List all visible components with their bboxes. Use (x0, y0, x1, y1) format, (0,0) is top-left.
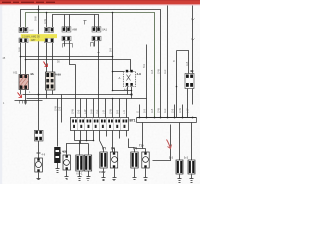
scan grain overlay (2, 5, 200, 184)
wire N1 (113, 90, 132, 92)
tick marks V193 (192, 19, 195, 41)
relay A comp (119, 70, 142, 92)
wire pair2 merge (65, 41, 76, 99)
wire comp right bottom (188, 89, 193, 118)
wire drop to pair3 left (94, 15, 96, 28)
wire pair1 left down (20, 43, 22, 57)
resistor G1 (54, 147, 67, 163)
connector group M A87 (45, 27, 54, 42)
connector bracket below comp1 (20, 101, 27, 104)
wire pair1 right down (25, 43, 27, 60)
ground G4 (87, 177, 91, 181)
ground G10 (190, 179, 194, 183)
wire C inner top (53, 15, 99, 28)
connector pair2 (62, 27, 77, 41)
connector bracket below pair3 (91, 43, 94, 47)
wire H1 bus top (21, 10, 161, 118)
title bar (0, 0, 200, 5)
wire enclosure small (129, 139, 135, 148)
wire right loop (177, 51, 189, 118)
connector strip B71 (71, 118, 136, 131)
connector G5 (100, 152, 107, 168)
wire M2 middle (26, 60, 131, 72)
wires below strip (75, 131, 127, 153)
wire G9 feed (179, 123, 181, 161)
ground G9 (178, 179, 182, 183)
stub x85 (84, 21, 87, 25)
connector pair3 (92, 27, 107, 41)
wire bulb0 down (38, 141, 40, 179)
ground G8 (144, 178, 148, 181)
wire group M left feed (46, 13, 48, 28)
bulb G8 (139, 144, 149, 169)
wire enclosure right (153, 125, 171, 161)
wire G3 feed (79, 141, 81, 155)
connector right comp (185, 69, 194, 88)
connector G7 (131, 152, 138, 168)
wire G10 feed (191, 123, 193, 161)
connector group L (19, 27, 28, 42)
title bar text (2, 2, 55, 3)
connector brackets above G5 G6 (103, 148, 137, 150)
ground G5 (102, 178, 106, 181)
wire comp A bottom (128, 87, 132, 99)
red arrow A1 (18, 93, 22, 98)
wire bottom jog2 (67, 144, 89, 155)
wire G7 G8 down (135, 169, 146, 178)
wire G1 down (57, 163, 59, 169)
wire comp1 feed (21, 57, 26, 75)
wire drop C to pair2 right (69, 15, 71, 28)
ground G6 (113, 178, 117, 181)
left page margin strip (0, 4, 2, 184)
page background (0, 0, 200, 184)
connector G10 (184, 158, 195, 175)
wire vertical V113 (112, 13, 114, 91)
ground G2 (65, 177, 69, 180)
wire vertical V167 (167, 6, 169, 118)
ground G0 (37, 179, 41, 182)
wire comp1 down (21, 90, 26, 105)
ground G7 (133, 178, 137, 181)
wire G2 down (66, 171, 68, 177)
ground G1 (56, 169, 60, 173)
wire M1 middle (21, 56, 113, 58)
relay comp2 (46, 72, 62, 90)
wire relay feed stub (113, 71, 124, 73)
wire comp2 feed (47, 43, 53, 73)
tick on wire x98 (98, 52, 100, 54)
connector G4 (76, 155, 92, 176)
bulb G6 (99, 152, 118, 174)
bus bar right (137, 118, 197, 123)
wire drop x57 long (57, 99, 59, 147)
wire bus stubs right (140, 105, 183, 118)
wire drop x61 (61, 95, 63, 123)
connector G3 (76, 155, 83, 171)
wire G5 diag (100, 141, 104, 153)
wire G6 feed (113, 149, 115, 153)
wire vertical V1 x38.5 (38, 6, 40, 131)
wire comp2 down (47, 91, 53, 99)
bulb G2 (55, 152, 70, 170)
connector G9 (169, 158, 183, 175)
fuse I01 comp1 (13, 71, 35, 90)
connector bracket below pair2 (63, 44, 73, 48)
wire bottom jog1 (75, 140, 94, 142)
wire drop C to pair2 left (64, 15, 66, 28)
wire code labels (3, 16, 190, 114)
wire vertical V193 (192, 6, 194, 74)
wire N2 (23, 94, 132, 96)
wire G5 G6 down (104, 169, 115, 178)
wire V146 (146, 45, 148, 99)
bulb G0 (35, 130, 46, 172)
wire N4 short (15, 100, 43, 102)
wire G9 G10 down (180, 175, 192, 179)
red arrow A3 (167, 140, 172, 149)
wire pair3 down (95, 41, 99, 118)
wire bus drop g78 (135, 123, 146, 153)
wire drops to strip (81, 99, 127, 118)
red arrow A2 (44, 62, 48, 67)
wire drop x75 (75, 99, 77, 118)
ground G3 (78, 177, 82, 181)
highlight yellow wire (21, 30, 57, 42)
wire N3 (27, 99, 147, 118)
wire G3 G4 down (80, 171, 89, 177)
wire H2 bus top (26, 13, 155, 118)
